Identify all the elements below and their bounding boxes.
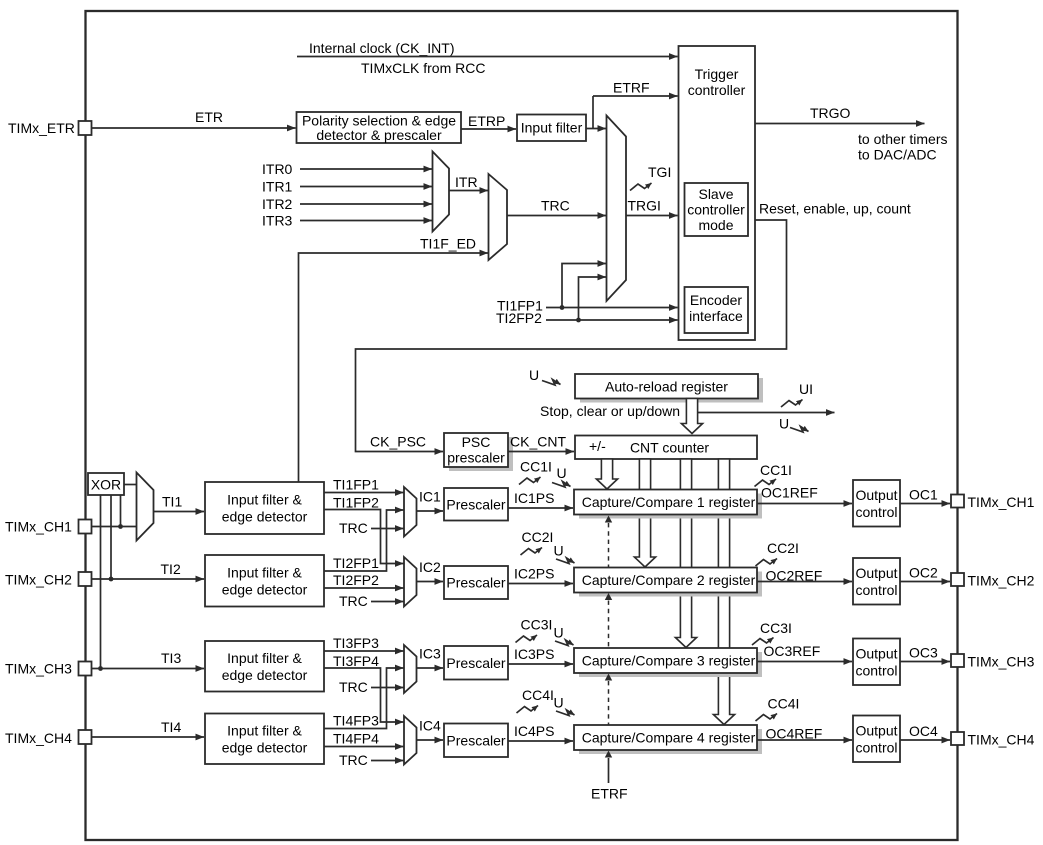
input filter block (517, 115, 586, 142)
svg-text:interface: interface (689, 308, 743, 324)
wire IC3 to prescaler (417, 667, 444, 669)
interrupt zigzag CC4I right (756, 714, 778, 722)
wire OC1REF to output control (757, 503, 852, 505)
svg-text:TRGO: TRGO (810, 105, 851, 121)
wire TI3FP4 down to IC4 mux (324, 668, 404, 722)
svg-text:TI1FP1: TI1FP1 (333, 477, 379, 493)
svg-text:Input filter &: Input filter & (227, 492, 302, 508)
input filter & edge detector block 4 (205, 714, 324, 765)
svg-text:control: control (855, 740, 897, 756)
polarity selection & edge detector & prescaler block (297, 112, 462, 143)
svg-text:OC1REF: OC1REF (761, 485, 818, 501)
svg-text:U: U (779, 416, 789, 432)
svg-text:Reset, enable, up, count: Reset, enable, up, count (759, 201, 911, 217)
svg-text:CC1I: CC1I (520, 459, 552, 475)
dashed wire capture feedback CC3-CC2 (608, 601, 610, 649)
junction TI1FP1 (560, 305, 565, 310)
capture/compare register 1 block (574, 490, 757, 515)
svg-text:TI4FP3: TI4FP3 (333, 713, 379, 729)
svg-text:prescaler: prescaler (447, 450, 505, 466)
arrowhead feedback into CC2 (605, 593, 612, 600)
svg-text:Prescaler: Prescaler (446, 496, 505, 512)
wire OC4 to pin (900, 739, 950, 741)
pin TIMx_CH1 left (79, 520, 92, 534)
update zigzag U right (790, 427, 809, 433)
slave controller mode block (685, 183, 749, 236)
svg-text:TI2FP2: TI2FP2 (496, 310, 542, 326)
svg-text:TIMx_CH2: TIMx_CH2 (5, 572, 72, 588)
wire input filter to SMS mux (586, 128, 606, 130)
wire TI1F_ED from edge detector 1 (299, 253, 489, 482)
svg-text:TIMx_CH3: TIMx_CH3 (968, 654, 1035, 670)
wire TIMx_CH3 to input filter 3 (92, 668, 205, 670)
svg-text:TI2FP2: TI2FP2 (333, 572, 379, 588)
svg-text:ITR0: ITR0 (262, 161, 293, 177)
prescaler block 3 (444, 646, 508, 680)
capture/compare register 4 block (574, 725, 757, 750)
pin TIMx_CH3 right (951, 654, 964, 667)
svg-text:U: U (554, 543, 564, 559)
wire TRC to trigger mux (507, 215, 606, 217)
wire XOR input from CH1 (120, 495, 122, 527)
svg-text:OC3: OC3 (909, 645, 938, 661)
svg-text:Prescaler: Prescaler (446, 732, 505, 748)
svg-text:mode: mode (698, 217, 733, 233)
svg-text:TI2FP1: TI2FP1 (333, 555, 379, 571)
interrupt zigzag CC1I right (755, 479, 777, 487)
trigger controller block (679, 46, 756, 340)
svg-text:OC1: OC1 (909, 487, 938, 503)
mux IC2 select (404, 557, 417, 607)
wire TRC into IC3 mux (371, 687, 404, 689)
wire ITR mux to TRC mux (449, 190, 488, 192)
interrupt zigzag CC3I left (516, 635, 538, 643)
mux IC3 select (404, 645, 417, 693)
svg-text:CNT counter: CNT counter (630, 440, 709, 456)
wire TIMx_CH2 to input filter 2 (92, 578, 205, 580)
pin TIMx_CH1 right (951, 495, 964, 508)
wire ETRF into CC4 register (608, 758, 610, 783)
svg-text:TRC: TRC (541, 198, 570, 214)
svg-text:PSC: PSC (462, 434, 491, 450)
svg-text:TI3: TI3 (161, 650, 181, 666)
capture/compare register 2 block (574, 568, 757, 593)
shadow capture compare register 1 (579, 494, 762, 519)
wire IC3PS to register (508, 663, 573, 665)
pin TIMx_CH3 left (79, 662, 92, 676)
svg-text:edge detector: edge detector (222, 667, 308, 683)
wire TI3FP3 to IC3 mux (324, 650, 404, 652)
svg-text:IC2PS: IC2PS (514, 566, 554, 582)
output control block 4 (853, 716, 900, 763)
junction XOR CH3 (98, 666, 103, 671)
svg-text:TI1: TI1 (162, 494, 182, 510)
svg-text:Capture/Compare 3 register: Capture/Compare 3 register (582, 653, 756, 669)
mux ITR select (433, 152, 450, 232)
hollow arrow CNT to CC2 register (634, 459, 655, 567)
XOR block (88, 473, 124, 495)
wire ITR3 into ITR mux (300, 220, 432, 222)
dashed wire capture feedback CC2-CC1 (608, 523, 610, 568)
wire ETRP polarity block to input filter (461, 128, 516, 130)
capture/compare register 3 block (574, 648, 757, 673)
svg-text:OC4REF: OC4REF (766, 726, 823, 742)
wire TI4FP3 up to IC3 mux (324, 668, 404, 729)
wire TRGI to trigger controller (626, 215, 678, 217)
wire TI2FP2 to IC2 mux (324, 587, 404, 589)
svg-text:Output: Output (855, 487, 897, 503)
output control block 1 (853, 480, 900, 527)
wire TI1FP1 riser to trigger mux (562, 264, 606, 308)
hollow arrow auto-reload to CNT (681, 399, 702, 434)
wire TI2FP2 riser to trigger mux (579, 277, 607, 320)
svg-text:Stop, clear or up/down: Stop, clear or up/down (540, 403, 680, 419)
auto-reload register block (575, 374, 758, 399)
svg-text:Output: Output (855, 565, 897, 581)
svg-text:TI3FP4: TI3FP4 (333, 653, 379, 669)
wire TI1FP1 to IC1 mux (324, 492, 404, 494)
pin TIMx_CH2 left (79, 572, 92, 586)
svg-text:Prescaler: Prescaler (446, 575, 505, 591)
wire OC1 to pin (900, 503, 950, 505)
pin TIMx_ETR (79, 121, 92, 135)
svg-text:IC4PS: IC4PS (514, 723, 554, 739)
arrowhead feedback into CC3 (605, 674, 612, 681)
svg-text:IC1: IC1 (419, 489, 441, 505)
svg-text:TRC: TRC (339, 593, 368, 609)
svg-text:Output: Output (855, 646, 897, 662)
svg-text:Input filter &: Input filter & (227, 564, 302, 580)
svg-text:TI3FP3: TI3FP3 (333, 635, 379, 651)
wire CK_CNT to CNT counter (508, 451, 574, 453)
svg-text:ITR3: ITR3 (262, 213, 293, 229)
wire ETR pin to polarity block (92, 127, 296, 129)
encoder interface block (685, 287, 749, 333)
wire TRC into IC1 mux (371, 528, 404, 530)
svg-text:IC4: IC4 (419, 718, 441, 734)
wire TIMx_CH4 to input filter 4 (92, 736, 205, 738)
input filter & edge detector block 2 (205, 555, 324, 607)
update zigzag to auto-reload (542, 380, 561, 386)
wire TI4FP4 to IC4 mux (324, 746, 404, 748)
svg-text:Input filter &: Input filter & (227, 650, 302, 666)
svg-text:OC2: OC2 (909, 565, 938, 581)
PSC prescaler block (444, 433, 508, 467)
shadow auto-reload register (580, 378, 763, 403)
shadow capture compare register 3 (579, 652, 762, 677)
input filter & edge detector block 1 (205, 482, 324, 534)
wire IC4 to prescaler (417, 739, 444, 741)
mux TRC select (489, 174, 508, 260)
wire OC2REF to output control (757, 581, 852, 583)
svg-text:Prescaler: Prescaler (446, 655, 505, 671)
wire TI2FP1 up to IC1 mux (324, 510, 404, 571)
svg-text:XOR: XOR (91, 477, 121, 493)
dashed wire capture feedback CC4-CC3 (608, 681, 610, 725)
junction XOR CH1 (118, 524, 123, 529)
wire ETRF riser (592, 96, 594, 129)
wire TI1FP2 down to IC2 mux (324, 510, 404, 564)
svg-text:ETR: ETR (195, 109, 223, 125)
update zigzag row2 (556, 558, 575, 564)
svg-text:TI4: TI4 (161, 719, 181, 735)
wire ETRF to trigger controller (593, 95, 678, 97)
svg-text:TRC: TRC (339, 752, 368, 768)
wire OC3REF to output control (757, 661, 852, 663)
svg-text:Input filter: Input filter (521, 120, 583, 136)
input filter & edge detector block 3 (205, 641, 324, 692)
svg-text:CK_PSC: CK_PSC (370, 434, 426, 450)
svg-text:CC4I: CC4I (522, 687, 554, 703)
pin TIMx_CH2 right (951, 573, 964, 586)
mux IC1 select (404, 487, 417, 537)
wire TI1 mux to input filter 1 (154, 511, 205, 513)
svg-text:edge detector: edge detector (222, 581, 308, 597)
arrowhead feedback into CC1 (605, 516, 612, 523)
svg-text:TIMx_CH4: TIMx_CH4 (5, 730, 72, 746)
update zigzag row4 (556, 710, 575, 716)
svg-text:CC3I: CC3I (760, 620, 792, 636)
prescaler block 1 (444, 488, 508, 521)
svg-text:CC2I: CC2I (767, 540, 799, 556)
wire OC3 to pin (900, 661, 950, 663)
svg-text:OC3REF: OC3REF (764, 643, 821, 659)
svg-text:control: control (855, 582, 897, 598)
wire IC4PS to register (508, 740, 573, 742)
svg-text:OC4: OC4 (909, 723, 938, 739)
wire ITR2 into ITR mux (300, 203, 432, 205)
svg-text:ETRF: ETRF (613, 80, 650, 96)
output control block 3 (853, 639, 900, 686)
svg-text:controller: controller (687, 202, 745, 218)
svg-text:control: control (855, 504, 897, 520)
wire IC1PS to register (508, 507, 573, 509)
wire IC2 to prescaler (417, 581, 444, 583)
pin TIMx_CH4 right (951, 732, 964, 745)
svg-text:TIMx_CH4: TIMx_CH4 (968, 732, 1035, 748)
shadow PSC prescaler (449, 437, 513, 471)
svg-text:to other timers: to other timers (858, 131, 947, 147)
svg-text:U: U (529, 367, 539, 383)
svg-text:Encoder: Encoder (690, 292, 742, 308)
wire TRC into IC2 mux (371, 601, 404, 603)
svg-text:TIMx_CH3: TIMx_CH3 (5, 661, 72, 677)
wire XOR input from CH3 (100, 495, 102, 669)
svg-text:TRC: TRC (339, 520, 368, 536)
svg-text:TI2: TI2 (161, 561, 181, 577)
svg-text:Capture/Compare 2 register: Capture/Compare 2 register (582, 572, 756, 588)
interrupt zigzag CC1I left (519, 477, 541, 485)
svg-text:ITR1: ITR1 (262, 179, 293, 195)
wire TRC into IC4 mux (371, 760, 404, 762)
svg-text:ETRF: ETRF (591, 786, 628, 802)
svg-text:to DAC/ADC: to DAC/ADC (858, 147, 937, 163)
wire UI event line (694, 412, 835, 414)
output control block 2 (853, 558, 900, 605)
svg-text:Internal clock (CK_INT): Internal clock (CK_INT) (309, 40, 454, 56)
update zigzag row1 (552, 482, 571, 488)
wire IC2PS to register (508, 583, 573, 585)
svg-text:edge detector: edge detector (222, 509, 308, 525)
svg-text:edge detector: edge detector (222, 739, 308, 755)
svg-text:U: U (557, 465, 567, 481)
svg-text:TRC: TRC (339, 679, 368, 695)
interrupt zigzag CC4I left (517, 706, 539, 714)
svg-text:Slave: Slave (698, 186, 733, 202)
svg-text:Auto-reload register: Auto-reload register (605, 379, 728, 395)
wire ITR1 into ITR mux (300, 186, 432, 188)
svg-text:TIMx_CH1: TIMx_CH1 (5, 519, 72, 535)
svg-text:CC1I: CC1I (760, 462, 792, 478)
CNT counter block (575, 436, 757, 460)
svg-text:CC2I: CC2I (522, 529, 554, 545)
svg-text:U: U (554, 625, 564, 641)
svg-text:CC3I: CC3I (521, 617, 553, 633)
wire TRGO (755, 123, 925, 125)
svg-text:Capture/Compare 1 register: Capture/Compare 1 register (582, 494, 756, 510)
mux TI1 select (137, 473, 154, 541)
svg-text:detector & prescaler: detector & prescaler (316, 127, 442, 143)
svg-text:IC2: IC2 (419, 559, 441, 575)
hollow arrow CNT to CC3 register (675, 459, 696, 648)
svg-text:TIMx_CH1: TIMx_CH1 (968, 494, 1035, 510)
wire internal clock CK_INT to trigger controller (297, 56, 678, 58)
wire TI1FP1 to encoder interface (546, 307, 678, 309)
wire XOR output to TI1 mux (124, 484, 137, 486)
wire XOR input from CH2 (110, 495, 112, 579)
svg-text:UI: UI (799, 381, 813, 397)
svg-text:TGI: TGI (648, 164, 671, 180)
svg-text:CC4I: CC4I (768, 696, 800, 712)
prescaler block 2 (444, 566, 508, 599)
junction XOR CH2 (109, 577, 114, 582)
svg-text:Input filter &: Input filter & (227, 722, 302, 738)
wire TIMx_CH1 to TI1 mux (92, 526, 137, 528)
svg-text:TI1F_ED: TI1F_ED (420, 236, 476, 252)
interrupt zigzag CC2I right (756, 559, 778, 567)
hollow arrow CNT to CC1 register (596, 459, 617, 489)
wire ITR0 into ITR mux (300, 168, 432, 170)
svg-text:ITR: ITR (455, 174, 478, 190)
wire TI2FP2 to encoder interface (546, 319, 678, 321)
prescaler block 4 (444, 724, 508, 758)
svg-text:+/-: +/- (589, 438, 606, 454)
wire OC2 to pin (900, 581, 950, 583)
svg-text:IC3PS: IC3PS (514, 646, 554, 662)
svg-text:TIMx_ETR: TIMx_ETR (8, 120, 75, 136)
svg-text:TI4FP4: TI4FP4 (333, 731, 379, 747)
interrupt zigzag TGI (630, 183, 652, 191)
svg-text:Capture/Compare 4 register: Capture/Compare 4 register (582, 730, 756, 746)
junction TI2FP2 (576, 318, 581, 323)
svg-text:U: U (554, 695, 564, 711)
wire IC1 to prescaler (417, 510, 444, 512)
interrupt zigzag UI (781, 400, 803, 408)
svg-text:TIMx_CH2: TIMx_CH2 (968, 573, 1035, 589)
svg-text:TIMxCLK from RCC: TIMxCLK from RCC (361, 60, 485, 76)
pin TIMx_CH4 left (79, 730, 92, 744)
svg-text:TRGI: TRGI (628, 198, 661, 214)
interrupt zigzag CC2I left (521, 548, 543, 556)
wire OC4REF to output control (757, 739, 852, 741)
svg-text:control: control (855, 663, 897, 679)
update zigzag row3 (555, 640, 574, 646)
svg-text:controller: controller (688, 82, 746, 98)
mux IC4 select (404, 716, 417, 765)
wire slave mode controller to PSC prescaler (356, 220, 787, 452)
hollow arrow CNT to CC4 register (713, 459, 734, 725)
svg-text:Output: Output (855, 723, 897, 739)
svg-text:IC1PS: IC1PS (514, 490, 554, 506)
interrupt zigzag CC3I right (752, 638, 774, 646)
svg-text:Trigger: Trigger (695, 66, 739, 82)
svg-text:ITR2: ITR2 (262, 196, 293, 212)
mux trigger input select (607, 116, 627, 302)
svg-text:CK_CNT: CK_CNT (510, 434, 566, 450)
svg-text:ETRP: ETRP (468, 113, 505, 129)
svg-text:TI1FP2: TI1FP2 (333, 495, 379, 511)
shadow capture compare register 2 (579, 572, 762, 597)
shadow capture compare register 4 (579, 729, 762, 754)
svg-text:IC3: IC3 (419, 646, 441, 662)
